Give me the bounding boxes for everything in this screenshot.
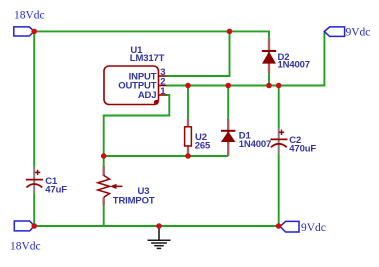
junction ground rail / ground symbol [156, 223, 162, 229]
C2 value label [289, 135, 316, 155]
wire: trimpot top stub [103, 156, 105, 166]
svg-text:18Vdc: 18Vdc [14, 10, 45, 22]
port 9Vdc top-right [324, 27, 370, 39]
junction output rail / D1 [225, 83, 231, 89]
C1 value label [45, 176, 67, 196]
wire: ADJ jog from U1 pin1 down to adj rail [104, 95, 170, 156]
wire: D2 bottom to output rail [268, 73, 270, 86]
U1 pin number 1 [160, 86, 166, 97]
U1 designator label [130, 45, 165, 64]
wire: output rail from U1 pin2 to 9Vdc top port [166, 32, 324, 86]
junction output rail / D2 [266, 83, 272, 89]
svg-text:470uF: 470uF [289, 144, 316, 155]
svg-text:ADJ: ADJ [138, 90, 157, 101]
U1 pin name ADJ [138, 90, 157, 101]
U1 pin name INPUT [129, 71, 157, 82]
diode D2 1N4007 [262, 38, 276, 73]
diode D1 1N4007 [221, 119, 236, 156]
junction output rail / C2 [276, 83, 282, 89]
svg-text:18Vdc: 18Vdc [10, 240, 41, 252]
junction adj rail / trimpot [101, 153, 107, 159]
resistor U2 [185, 119, 192, 156]
port 9Vdc bottom-right [280, 221, 326, 234]
svg-text:LM317T: LM317T [130, 53, 165, 64]
junction ground rail / 18Vdc port [31, 223, 37, 229]
junction output rail / U2 [185, 83, 191, 89]
svg-text:1N4007: 1N4007 [239, 139, 271, 150]
junction top rail to pin3 branch [227, 29, 233, 35]
ground [148, 226, 171, 248]
port 18Vdc top-left [14, 10, 45, 36]
wire: C2 top branch [278, 86, 280, 129]
U3 value label [113, 186, 155, 207]
D2 value label [278, 52, 310, 71]
capacitor C1 [26, 166, 43, 194]
junction adj rail / U2 bottom [185, 153, 191, 159]
wire: branch from top rail down to U1 pin3 [166, 31, 230, 76]
svg-text:265: 265 [195, 140, 211, 151]
wire: top input rail from 18Vdc port to D2 [34, 31, 269, 38]
U1 pin number 3 [160, 67, 165, 78]
wire: U2 top branch [187, 86, 189, 120]
U2 value label [195, 132, 211, 152]
wire: left vertical from 18Vdc to C1 top [33, 31, 35, 167]
wire: C2 bottom to 9Vdc port [278, 155, 280, 227]
svg-text:1N4007: 1N4007 [278, 60, 310, 71]
junction at 18Vdc top port [31, 29, 37, 35]
wire: D1 top branch [227, 86, 229, 120]
svg-text:9Vdc: 9Vdc [301, 222, 326, 234]
wire: bottom ground rail [34, 225, 278, 227]
svg-text:9Vdc: 9Vdc [346, 27, 371, 39]
junction ground rail / 9Vdc port [276, 223, 282, 229]
wire: C1 bottom to ground rail [33, 194, 35, 227]
svg-text:TRIMPOT: TRIMPOT [113, 196, 155, 207]
D1 value label [239, 131, 271, 151]
svg-text:47uF: 47uF [45, 185, 67, 196]
trimpot U3 [98, 166, 123, 205]
U1 pin number 2 [160, 77, 165, 88]
capacitor C2 [270, 128, 287, 155]
U1 pin name OUTPUT [118, 81, 157, 92]
svg-text:1: 1 [160, 86, 166, 97]
port 18Vdc bottom-left [10, 221, 41, 252]
op-amp U1 regulator LM317T body [104, 66, 166, 105]
wire: trimpot bottom to ground rail [103, 205, 105, 227]
wire: adj rail from trimpot to D1 bottom [104, 155, 229, 157]
